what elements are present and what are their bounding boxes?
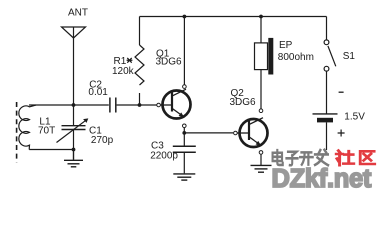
svg-text:120k: 120k: [112, 66, 135, 77]
svg-text:270p: 270p: [91, 135, 114, 146]
node antenna/C1 junction: [72, 103, 76, 107]
svg-text:S1: S1: [343, 51, 356, 62]
wire tank bottom: [29, 149, 73, 151]
capacitor C2 0.01: [88, 80, 115, 113]
wire main signal line right: [117, 104, 157, 106]
wire EP to rail: [260, 17, 262, 43]
wire EP to Q2 collector: [260, 70, 262, 109]
svg-text:3DG6: 3DG6: [230, 97, 257, 108]
wire base Q2: [184, 132, 233, 134]
node R1/base junction: [138, 103, 142, 107]
char 社: [336, 151, 353, 166]
switch S1: [324, 17, 355, 72]
transistor Q1 3DG6: [156, 49, 191, 128]
wire Q1 emitter down: [183, 128, 185, 146]
svg-text:DZkf.net: DZkf.net: [272, 165, 372, 191]
transistor Q2 3DG6: [230, 88, 268, 154]
ground (Q2 emitter): [251, 165, 272, 172]
node rail/Q1 collector: [183, 15, 187, 19]
watermark 电子开发社区: [273, 150, 375, 165]
svg-text:3DG6: 3DG6: [156, 56, 183, 67]
svg-text:0.01: 0.01: [88, 87, 108, 98]
capacitor C3 2200p: [150, 141, 196, 174]
svg-text:800ohm: 800ohm: [278, 52, 314, 63]
char 发: [315, 150, 328, 165]
svg-text:1.5V: 1.5V: [344, 112, 365, 123]
earphone EP 800ohm: [255, 38, 314, 75]
char 子: [286, 152, 297, 166]
node tank bottom junction: [72, 148, 76, 152]
char 开: [300, 152, 313, 164]
svg-text:70T: 70T: [38, 126, 55, 137]
char 区: [360, 151, 374, 164]
node rail/EP: [259, 15, 263, 19]
wire top rail: [140, 16, 327, 18]
antenna ANT: [62, 8, 89, 105]
inductor L1 70T: [19, 105, 55, 150]
ferrite core dashed line: [16, 102, 18, 163]
svg-text:EP: EP: [279, 40, 293, 51]
svg-text:2200p: 2200p: [150, 150, 178, 161]
capacitor C1 270p variable: [57, 105, 114, 150]
wire Q2 emitter to ground: [260, 155, 262, 166]
char 电: [273, 150, 283, 165]
wire Q1 collector to rail: [183, 17, 185, 85]
wire main signal line left: [29, 104, 109, 106]
battery 1.5V: [313, 92, 366, 136]
svg-text:ANT: ANT: [68, 8, 88, 19]
wire battery down: [326, 122, 328, 150]
ground (tank): [64, 150, 83, 167]
wire switch to battery: [326, 71, 328, 114]
node emitter/C3/base2 junction: [182, 131, 186, 135]
resistor R1 120k: [112, 17, 144, 106]
ground (C3): [173, 174, 195, 180]
